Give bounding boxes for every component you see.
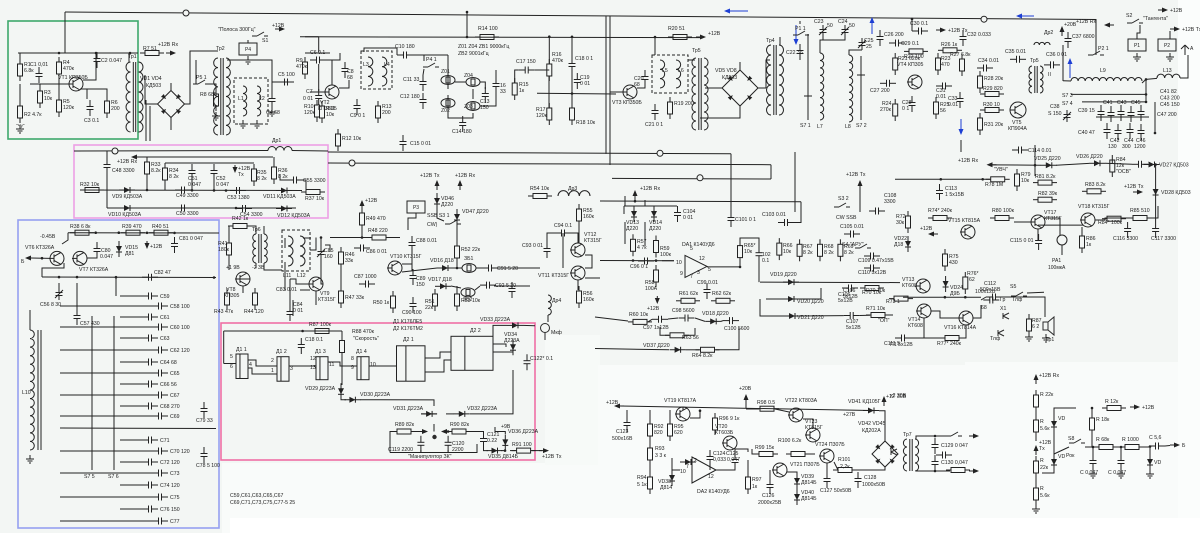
diode VD46 [434, 193, 440, 209]
svg-text:С79 33: С79 33 [196, 418, 213, 424]
svg-text:1к: 1к [519, 88, 525, 94]
svg-text:Z04: Z04 [464, 73, 473, 79]
wire t3 w4 [688, 59, 695, 61]
wire tp6 w10 [320, 238, 322, 248]
arrow +12 pa [614, 404, 624, 409]
svg-text:0,047: 0,047 [727, 457, 740, 463]
pink block frame (keyer) [221, 323, 535, 460]
svg-text:R53 10к: R53 10к [461, 298, 481, 304]
wire pb1 rail2 [139, 156, 273, 158]
capacitor C122 0.1 [524, 354, 531, 370]
svg-text:S7 2: S7 2 [856, 123, 867, 129]
capacitor C103 0.01 [778, 219, 794, 226]
svg-text:68: 68 [347, 75, 353, 81]
wire bb w6 [58, 283, 60, 288]
resistor R75 430 [943, 249, 948, 271]
wire ssb w22 [437, 209, 444, 221]
wire if w11b [447, 95, 449, 116]
capacitor C2 0.047 [94, 52, 101, 68]
capacitor C4 68 [269, 92, 276, 108]
wire pb1 row3l [106, 190, 108, 208]
node c47 dot [1154, 132, 1157, 135]
svg-text:C117 3300: C117 3300 [1151, 236, 1176, 242]
diode VD29 [338, 383, 344, 399]
wire tp6 w13 [289, 279, 291, 307]
svg-text:8 2к: 8 2к [844, 250, 854, 256]
wire agc w5 [624, 196, 626, 200]
capacitor C125 [732, 453, 739, 469]
svg-text:Д81: Д81 [125, 251, 134, 257]
node bb n1 [94, 231, 97, 234]
transistor VT14 [916, 304, 931, 318]
crystal Z02 [441, 99, 455, 108]
svg-text:С9 0 1: С9 0 1 [350, 113, 365, 119]
svg-text:+12В Rx: +12В Rx [1076, 19, 1096, 25]
capacitor C112 [983, 297, 999, 304]
wire tp6 w1 [247, 226, 256, 234]
node pb1 n4 [213, 189, 216, 192]
wire ladder C59 [120, 295, 142, 297]
svg-text:С49 3300: С49 3300 [176, 193, 199, 199]
capacitor С76 150 [142, 506, 158, 513]
capacitor C102 0.1 [756, 246, 763, 262]
resistor R42 1k [228, 224, 252, 229]
svg-text:L7: L7 [817, 124, 823, 130]
node ssb n2 [456, 267, 459, 270]
svg-text:+12В Тx: +12В Тx [1182, 27, 1200, 33]
wire ant wire [1187, 55, 1189, 60]
svg-text:С66 56: С66 56 [160, 382, 177, 388]
node l9 n3 [1145, 101, 1148, 104]
node l9 n2 [1145, 93, 1148, 96]
relay P3 [407, 201, 425, 213]
wire vd20 row2 [799, 288, 821, 299]
svg-text:Тр5: Тр5 [1030, 58, 1039, 64]
wire ladder C75 [60, 496, 152, 498]
svg-text:Б: Б [21, 259, 25, 265]
capacitor C109 [864, 253, 880, 260]
capacitor C15 0.01 [400, 135, 407, 151]
svg-text:6.8к: 6.8к [24, 68, 34, 74]
wire sm w10 [1152, 206, 1158, 218]
svg-text:8.2к: 8.2к [151, 168, 161, 174]
svg-text:C65: C65 [170, 371, 180, 377]
node n14b [571, 36, 574, 39]
node g3 [129, 52, 132, 55]
IC D2.2 [451, 336, 493, 370]
svg-text:10: 10 [676, 260, 682, 266]
wire brn w3 [1054, 408, 1076, 416]
node bb n7 [76, 276, 79, 279]
svg-text:R71 10к: R71 10к [866, 306, 886, 312]
inductor Dr1 [268, 147, 292, 151]
wire bb w1 [62, 233, 68, 244]
wire ladder C73 [60, 472, 152, 474]
wire key w4 [289, 365, 316, 367]
inductor L1 [243, 86, 247, 116]
switch S3 1 [445, 220, 461, 224]
wire rail237b [391, 237, 400, 239]
node brn n1 [1091, 407, 1094, 410]
svg-text:L12: L12 [297, 273, 306, 279]
svg-text:2,2к: 2,2к [840, 464, 850, 470]
node pb1 n1 [146, 189, 149, 192]
wire tp1 top [128, 53, 130, 62]
svg-text:CW SSB: CW SSB [836, 215, 857, 221]
capacitor C65 [152, 370, 168, 377]
wire sm w6b [1155, 165, 1157, 184]
arrow tp7 out1 [969, 434, 979, 439]
switch Tp7 sw [946, 432, 962, 436]
svg-text:Д220: Д220 [626, 226, 638, 232]
arrow +12 bb [145, 241, 150, 249]
capacitor C71 [142, 437, 158, 444]
wire ladder C71 [120, 439, 142, 441]
capacitor C18 0.1 [569, 57, 576, 73]
svg-text:R30 10: R30 10 [983, 102, 1000, 108]
wire ssb w32 [547, 315, 549, 322]
svg-text:ZВ2 9001кГц: ZВ2 9001кГц [458, 51, 489, 57]
wire if w20 [571, 37, 573, 57]
wire t3 w2 [654, 37, 656, 55]
svg-text:S2: S2 [1126, 13, 1132, 19]
wire bb w7 [76, 283, 78, 309]
wire t3 w8 [820, 37, 845, 53]
svg-text:R12 10к: R12 10к [342, 136, 362, 142]
svg-text:КТ815Г: КТ815Г [805, 425, 823, 431]
white margin bottom right [222, 463, 1200, 533]
wire if w9 [423, 55, 425, 61]
svg-text:S7 5: S7 5 [84, 474, 95, 480]
svg-text:С41: С41 [1103, 100, 1113, 106]
diode VD33 [507, 322, 523, 328]
svg-text:VT10 КТ315Г: VT10 КТ315Г [390, 254, 422, 260]
wire t3 w7 [799, 21, 801, 24]
transistor VT20 [722, 436, 737, 450]
wire green rail [18, 52, 138, 54]
resistor R76 62 [963, 272, 968, 294]
resistor R85 510 [1128, 216, 1152, 221]
svg-text:S5: S5 [1010, 284, 1016, 290]
svg-text:КД503: КД503 [146, 83, 161, 89]
svg-text:C130 0,047: C130 0,047 [941, 460, 968, 466]
capacitor C50 3300 [175, 205, 191, 212]
diode VD35 [487, 448, 503, 454]
svg-text:"Манипулятор ЗК": "Манипулятор ЗК" [408, 454, 452, 460]
wire bb w4 [87, 256, 97, 258]
capacitor С62 120 [152, 347, 168, 354]
wire ladder C65 [60, 372, 152, 374]
svg-text:С50 3300: С50 3300 [176, 211, 199, 217]
transistor VT8 [235, 272, 250, 286]
transformer Tp6 [253, 234, 268, 263]
svg-text:С114 0.01: С114 0.01 [1028, 148, 1052, 154]
capacitor C 5.6 [1149, 443, 1165, 450]
svg-text:C36 0 01: C36 0 01 [1046, 52, 1067, 58]
svg-text:+20В: +20В [1064, 22, 1077, 28]
capacitor C78 [201, 447, 208, 463]
resistor R72 30k [906, 211, 911, 233]
svg-text:160к: 160к [583, 214, 595, 220]
svg-text:КТ608: КТ608 [908, 323, 923, 329]
wire pa w13 [716, 467, 735, 470]
svg-text:-2 3В: -2 3В [252, 265, 265, 271]
resistor R69 8.2k [838, 239, 843, 261]
svg-text:100к: 100к [660, 252, 672, 258]
resistor R68 8.2k [818, 239, 823, 261]
wire pa rail [620, 406, 871, 411]
resistor R11 10k [320, 101, 325, 123]
wire if w17 [515, 70, 519, 83]
speaker Gr1 [1043, 317, 1054, 335]
transformer Tp4 [767, 45, 784, 115]
wire b2 top [739, 62, 741, 70]
wire s5 out [1027, 291, 1044, 294]
svg-text:C110 5x12В: C110 5x12В [858, 270, 887, 276]
svg-text:VD41 КД105Г: VD41 КД105Г [848, 399, 881, 405]
capacitor C16 33 [493, 77, 500, 93]
svg-text:470к: 470к [552, 58, 564, 64]
svg-text:5.6к: 5.6к [1040, 493, 1050, 499]
node y93 n1 [571, 92, 574, 95]
arrow +20v [1060, 26, 1065, 36]
svg-text:R77* 240к: R77* 240к [937, 341, 962, 347]
svg-text:S7 4: S7 4 [1062, 101, 1073, 107]
capacitor C101 0.1 [728, 211, 735, 227]
svg-text:"Тангента": "Тангента" [1143, 16, 1168, 22]
capacitor C124 [707, 450, 714, 466]
resistor R87 100k [310, 329, 334, 334]
svg-text:VT3 КП350Б: VT3 КП350Б [612, 100, 642, 106]
wire pa w19 [826, 463, 828, 474]
wire key w8 [425, 360, 451, 372]
resistor R93 3.3k [648, 443, 653, 465]
svg-text:C98 5600: C98 5600 [672, 308, 695, 314]
relay P2 [1158, 39, 1176, 51]
diode VD28 [1153, 184, 1159, 200]
wire pa w25 [796, 489, 798, 491]
capacitor C63 [142, 335, 158, 342]
diode VD13 [631, 206, 637, 222]
svg-text:C4 68: C4 68 [266, 110, 280, 116]
svg-text:R49 470: R49 470 [366, 216, 386, 222]
resistor R7 51 [140, 51, 164, 56]
ground l2 gnd [253, 120, 261, 128]
svg-text:С41 82: С41 82 [1160, 89, 1177, 95]
resistor R87b 6.2 [1027, 314, 1032, 336]
wire key w23b [447, 450, 449, 453]
wire sm w4b [1144, 163, 1149, 165]
diode VD22 [905, 236, 911, 252]
node pb1 n2 [225, 189, 228, 192]
wire pa w2 [649, 410, 651, 424]
switch S8 [1069, 439, 1085, 443]
wire if w21 [571, 73, 573, 105]
wire sm w1 [895, 178, 990, 180]
wire ladder C77 [60, 520, 152, 522]
wire key w20 [412, 431, 421, 433]
capacitor C79 33 [201, 402, 208, 418]
svg-text:R: R [1040, 419, 1044, 425]
svg-text:5: 5 [708, 267, 711, 273]
svg-text:0.01: 0.01 [948, 102, 958, 108]
svg-text:C53 1380: C53 1380 [227, 195, 250, 201]
diode VD25 [1041, 162, 1057, 168]
svg-text:12: 12 [310, 356, 316, 362]
svg-text:R94: R94 [637, 475, 647, 481]
wire tp6 w4 [228, 255, 230, 270]
svg-text:С81 0 047: С81 0 047 [179, 236, 203, 242]
svg-text:Тлф: Тлф [1012, 297, 1023, 303]
wire gate line [600, 260, 674, 262]
wire if w2 [318, 37, 320, 52]
node smn3 [981, 178, 984, 181]
svg-text:C24: C24 [838, 19, 848, 25]
svg-text:C116 3300: C116 3300 [1113, 236, 1138, 242]
wire brn w7 [1085, 446, 1094, 448]
svg-text:Z02: Z02 [441, 108, 450, 114]
wire key w24 [484, 446, 489, 451]
crystal Z03 [466, 102, 480, 111]
svg-text:Д1 3: Д1 3 [315, 349, 326, 355]
wire vd20 row [766, 298, 783, 300]
node bb n6 [58, 276, 61, 279]
svg-text:VD26 Д220: VD26 Д220 [1076, 154, 1103, 160]
wire pb1 row2 [80, 189, 302, 192]
op-amp DA1 [685, 255, 707, 277]
svg-text:VD37 Д220: VD37 Д220 [643, 343, 670, 349]
svg-text:+9В: +9В [501, 424, 511, 430]
blue block frame (VFO) [18, 220, 219, 528]
wire key r88v [341, 331, 343, 340]
wire key w11 [493, 325, 507, 340]
wire vt cluster w2 [911, 318, 924, 338]
resistor R51 22k [433, 289, 438, 311]
wire l13 join [1142, 78, 1157, 83]
wire vd loop l [623, 206, 625, 214]
resistor R15 1k [512, 78, 517, 100]
transistor VT15 [960, 225, 975, 239]
svg-text:П1 5х12В: П1 5х12В [890, 342, 913, 348]
svg-text:С18 0.1: С18 0.1 [305, 337, 323, 343]
svg-text:33к: 33к [345, 258, 354, 264]
svg-text:С12 180: С12 180 [400, 94, 420, 100]
wire sm w6c [1155, 200, 1157, 222]
capacitor C105 0.01 [844, 231, 860, 238]
node g2 [95, 52, 98, 55]
wire ssb w10 [402, 250, 412, 264]
capacitor C120 2200 [445, 436, 452, 452]
svg-text:0 1: 0 1 [902, 106, 909, 112]
ground c4 gnd [268, 108, 276, 116]
svg-text:R44 120: R44 120 [244, 309, 264, 315]
svg-text:VD19 Д220: VD19 Д220 [770, 272, 797, 278]
svg-text:VD25 Д220: VD25 Д220 [1034, 156, 1061, 162]
svg-text:150: 150 [416, 282, 425, 288]
svg-text:C69: C69 [170, 414, 180, 420]
wire if w11d [413, 54, 448, 56]
resistor R82 39k [1033, 197, 1057, 202]
svg-text:Рок: Рок [1066, 453, 1075, 459]
arrow blue up1 [870, 17, 875, 34]
arrow +12rx ssb [458, 180, 463, 190]
diode VD37 [670, 347, 686, 353]
svg-text:С90 100: С90 100 [402, 310, 422, 316]
capacitor C108c [869, 208, 885, 215]
capacitor С68 270 [142, 403, 158, 410]
wire t3 w9 [849, 50, 862, 55]
svg-text:С60 100: С60 100 [170, 325, 190, 331]
wire bb w5 [42, 263, 64, 277]
capacitor C113 [936, 184, 943, 200]
svg-text:L10: L10 [22, 390, 31, 396]
resistor R35 8.2k [252, 164, 257, 186]
wire vt cluster w1 [931, 311, 959, 318]
node smn1 [1034, 164, 1037, 167]
diode VD27 [1144, 162, 1160, 168]
wire sm w12 [1037, 229, 1039, 240]
svg-text:VD: VD [1058, 454, 1065, 460]
capacitor C85 160 [318, 245, 325, 261]
wire green drain [83, 53, 96, 80]
capacitor C5 100 [278, 79, 294, 86]
arrow +12txb [1170, 27, 1180, 32]
node key n2 [447, 430, 450, 433]
resistor R64 8.2k [696, 347, 720, 352]
svg-text:R: R [1040, 458, 1044, 464]
wire agc rail [600, 200, 801, 203]
pink block frame (mixer) [74, 145, 328, 218]
svg-text:Б: Б [1182, 443, 1186, 449]
svg-text:С72 120: С72 120 [160, 460, 180, 466]
shield box L5L6 [652, 55, 688, 93]
wire ssb w17 [496, 267, 540, 269]
svg-text:VD20 Д220: VD20 Д220 [797, 299, 824, 305]
svg-text:470к: 470к [63, 66, 75, 72]
svg-text:С58 100: С58 100 [170, 304, 190, 310]
capacitor C81 0.047 [171, 237, 178, 253]
wire key w25 [501, 450, 506, 452]
svg-text:R93: R93 [655, 446, 665, 452]
svg-text:Р2 1: Р2 1 [1098, 46, 1109, 52]
svg-text:C103 0.01: C103 0.01 [762, 212, 786, 218]
wire sm w7 [1014, 221, 1031, 223]
resistor R77 [940, 336, 964, 341]
svg-text:R14 100: R14 100 [478, 26, 498, 32]
svg-text:C78 5 100: C78 5 100 [196, 463, 220, 469]
capacitor C53 1380 [230, 187, 246, 194]
svg-text:С 0,047: С 0,047 [1108, 470, 1126, 476]
capacitor C33 0.01 [957, 92, 964, 108]
svg-text:L11: L11 [283, 273, 291, 279]
svg-text:КД202А: КД202А [862, 428, 881, 434]
wire vt cluster w3 [924, 337, 944, 339]
shield box L3L4 [361, 51, 392, 89]
resistor R28 20k [978, 71, 983, 93]
svg-text:+12В: +12В [150, 244, 163, 250]
trimmer slash C85 [317, 249, 325, 257]
wire vd loop [624, 205, 677, 207]
resistor R78 1M [986, 177, 1010, 182]
svg-text:VT6 КТ326А: VT6 КТ326А [25, 245, 55, 251]
resistor R98 0.5 [755, 406, 779, 411]
svg-text:S 150: S 150 [1048, 111, 1062, 117]
svg-text:Р1 1: Р1 1 [795, 26, 806, 32]
wire pa w6 [746, 408, 759, 410]
diode VD c [1051, 454, 1057, 470]
svg-text:R2 4.7к: R2 4.7к [24, 112, 42, 118]
ground brn g3 [1146, 470, 1154, 478]
